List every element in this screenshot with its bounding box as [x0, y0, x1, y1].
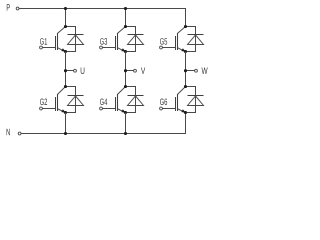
transistor G1 (IGBT): [40, 27, 66, 52]
junction dot G5 collector node: [184, 25, 187, 28]
label U: [81, 68, 85, 74]
junction dot G6 collector node: [184, 85, 187, 88]
G6 gate lead: [162, 108, 175, 110]
G3 emitter arrowhead: [121, 48, 125, 51]
transistor G3 (IGBT): [100, 27, 126, 52]
terminal N circle: [18, 132, 21, 135]
label G6: [160, 99, 167, 106]
wire G4 emitter to N rail: [125, 113, 127, 134]
G3 gate terminal circle: [100, 46, 103, 49]
G2 collector lead: [58, 87, 66, 95]
terminal P circle: [16, 7, 19, 10]
G5 emitter arrowhead: [181, 48, 185, 51]
G4 emitter arrowhead: [121, 109, 125, 112]
terminal V circle: [134, 69, 137, 72]
diode D4 anode triangle: [128, 96, 144, 106]
wire P rail to G3 collector: [125, 9, 127, 27]
G2 gate bar: [55, 97, 57, 111]
diode D2 branch loop wire: [66, 87, 76, 113]
G4 collector lead: [118, 87, 126, 95]
junction dot G1 collector node: [64, 25, 67, 28]
G6 emitter arrowhead: [181, 109, 185, 112]
label G2: [40, 99, 47, 106]
junction dot on N rail at phase V leg: [124, 132, 127, 135]
diode D6 anode triangle: [188, 96, 204, 106]
G5 gate lead: [162, 47, 175, 49]
diode D5 cathode bar: [188, 34, 204, 36]
junction dot G3 emitter node: [124, 50, 127, 53]
diode D5 anode triangle: [188, 35, 204, 45]
G2 emitter arrowhead: [61, 109, 65, 112]
diode D1 cathode bar: [68, 34, 84, 36]
G4 emitter lead: [118, 109, 126, 113]
diode D2 cathode bar: [68, 95, 84, 97]
label G1: [40, 38, 47, 45]
junction dot on P rail at phase U leg: [64, 7, 67, 10]
junction dot G4 emitter node: [124, 111, 127, 114]
wire phase W midpoint (emitter G5 to collector G6): [185, 52, 187, 87]
transistor G4 (IGBT): [100, 87, 126, 113]
wire phase V midpoint (emitter G3 to collector G4): [125, 52, 127, 87]
transistor G2 (IGBT): [40, 87, 66, 113]
G6 gate bar: [175, 97, 177, 111]
G2 emitter lead: [58, 109, 66, 113]
G4 gate terminal circle: [100, 107, 103, 110]
G1 gate lead: [42, 47, 55, 49]
diode D3 anode triangle: [128, 35, 144, 45]
diode D1 anode triangle: [68, 35, 84, 45]
junction dot node V: [124, 69, 127, 72]
junction dot G6 emitter node: [184, 111, 187, 114]
junction dot G3 collector node: [124, 25, 127, 28]
G1 gate terminal circle: [40, 46, 43, 49]
diode D4 cathode bar: [128, 95, 144, 97]
G3 collector lead: [118, 27, 126, 34]
label W: [202, 68, 208, 74]
diode D6 branch loop wire: [186, 87, 196, 113]
wire output stub U: [66, 70, 74, 72]
diode D2 anode triangle: [68, 96, 84, 106]
G1 gate bar: [55, 36, 57, 50]
G5 gate terminal circle: [160, 46, 163, 49]
G1 collector lead: [58, 27, 66, 34]
label V: [141, 68, 145, 74]
wire phase U midpoint (emitter G1 to collector G2): [65, 52, 67, 87]
diode D6 cathode bar: [188, 95, 204, 97]
junction dot G2 collector node: [64, 85, 67, 88]
G5 emitter lead: [178, 48, 186, 52]
P bus rail wire (top): [19, 9, 185, 27]
G6 collector lead: [178, 87, 186, 95]
G5 gate bar: [175, 36, 177, 50]
diode D3 cathode bar: [128, 34, 144, 36]
diode D1 branch loop wire: [66, 27, 76, 52]
junction dot G5 emitter node: [184, 50, 187, 53]
G3 gate lead: [102, 47, 115, 49]
G2 body bar: [57, 94, 59, 111]
terminal W circle: [195, 69, 198, 72]
G6 gate terminal circle: [160, 107, 163, 110]
G1 emitter lead: [58, 48, 66, 52]
wire output stub V: [126, 70, 134, 72]
diode D3 branch loop wire: [126, 27, 136, 52]
G3 emitter lead: [118, 48, 126, 52]
label G3: [100, 38, 107, 45]
G2 gate terminal circle: [40, 107, 43, 110]
junction dot G2 emitter node: [64, 111, 67, 114]
label G5: [160, 38, 167, 45]
G4 body bar: [117, 94, 119, 111]
diode D5 branch loop wire: [186, 27, 196, 52]
G3 gate bar: [115, 36, 117, 50]
label N: [7, 129, 10, 135]
wire P rail to G1 collector: [65, 9, 67, 27]
wire G2 emitter to N rail: [65, 113, 67, 134]
diode D4 branch loop wire: [126, 87, 136, 113]
junction dot on N rail at phase U leg: [64, 132, 67, 135]
G2 gate lead: [42, 108, 55, 110]
label G4: [100, 99, 107, 106]
junction dot G1 emitter node: [64, 50, 67, 53]
junction dot node U: [64, 69, 67, 72]
G5 collector lead: [178, 27, 186, 34]
G4 gate bar: [115, 97, 117, 111]
terminal U circle: [74, 69, 77, 72]
G1 body bar: [57, 33, 59, 50]
junction dot G4 collector node: [124, 85, 127, 88]
junction dot on P rail at phase V leg: [124, 7, 127, 10]
G3 body bar: [117, 33, 119, 50]
G1 emitter arrowhead: [61, 48, 65, 51]
junction dot node W: [184, 69, 187, 72]
G6 body bar: [177, 94, 179, 111]
N bus rail wire (bottom): [21, 113, 185, 134]
label P: [7, 4, 10, 10]
wire output stub W: [186, 70, 195, 72]
G4 gate lead: [102, 108, 115, 110]
G5 body bar: [177, 33, 179, 50]
G6 emitter lead: [178, 109, 186, 113]
transistor G5 (IGBT): [160, 27, 186, 52]
transistor G6 (IGBT): [160, 87, 186, 113]
